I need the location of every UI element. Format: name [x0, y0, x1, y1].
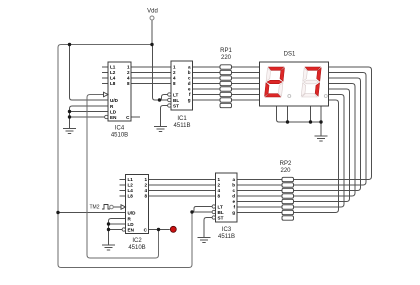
svg-text:4: 4 — [127, 76, 130, 81]
svg-text:BL: BL — [173, 98, 179, 103]
svg-text:2: 2 — [173, 70, 176, 75]
svg-text:a: a — [232, 177, 235, 182]
svg-text:L2: L2 — [128, 183, 134, 188]
svg-text:4511B: 4511B — [218, 234, 235, 240]
svg-text:a: a — [188, 65, 191, 70]
svg-text:RP1: RP1 — [220, 48, 232, 54]
svg-text:8: 8 — [127, 81, 130, 86]
svg-text:4510B: 4510B — [128, 245, 145, 251]
svg-text:L1: L1 — [128, 177, 134, 182]
svg-text:L1: L1 — [110, 65, 116, 70]
svg-text:1: 1 — [127, 65, 130, 70]
svg-text:Vdd: Vdd — [147, 9, 158, 15]
svg-text:TM2: TM2 — [90, 205, 100, 211]
svg-text:1: 1 — [173, 65, 176, 70]
svg-text:EN: EN — [128, 227, 135, 232]
svg-text:LD: LD — [128, 222, 135, 227]
svg-text:L8: L8 — [110, 81, 116, 86]
svg-text:4: 4 — [144, 188, 147, 193]
svg-text:IC3: IC3 — [222, 227, 232, 233]
svg-text:8: 8 — [144, 194, 147, 199]
svg-text:8: 8 — [218, 194, 221, 199]
svg-text:d: d — [188, 81, 191, 86]
svg-text:BL: BL — [218, 210, 224, 215]
svg-text:DS1: DS1 — [284, 52, 296, 58]
svg-text:e: e — [188, 87, 191, 92]
svg-text:1: 1 — [218, 177, 221, 182]
svg-text:LT: LT — [218, 204, 223, 209]
svg-text:4510B: 4510B — [111, 133, 128, 139]
svg-text:e: e — [232, 199, 235, 204]
svg-text:b: b — [232, 183, 235, 188]
svg-text:IC2: IC2 — [132, 238, 142, 244]
svg-text:1: 1 — [144, 177, 147, 182]
svg-text:ST: ST — [173, 103, 179, 108]
svg-text:LT: LT — [173, 92, 178, 97]
svg-text:IC1: IC1 — [177, 116, 187, 122]
svg-text:L2: L2 — [110, 70, 116, 75]
svg-text:4: 4 — [173, 76, 176, 81]
svg-text:2: 2 — [144, 183, 147, 188]
svg-text:L8: L8 — [128, 194, 134, 199]
svg-text:U/D: U/D — [110, 98, 119, 103]
svg-text:4: 4 — [218, 188, 221, 193]
svg-text:220: 220 — [221, 55, 232, 61]
svg-text:EN: EN — [110, 115, 117, 120]
svg-text:L4: L4 — [110, 76, 116, 81]
svg-text:g: g — [188, 98, 191, 103]
svg-text:U/D: U/D — [128, 210, 137, 215]
svg-text:d: d — [232, 194, 235, 199]
svg-text:g: g — [232, 210, 235, 215]
svg-text:L4: L4 — [128, 188, 134, 193]
svg-text:ST: ST — [218, 215, 224, 220]
svg-text:LD: LD — [110, 109, 117, 114]
svg-text:c: c — [188, 76, 191, 81]
svg-text:IC4: IC4 — [115, 126, 125, 132]
svg-text:8: 8 — [173, 81, 176, 86]
svg-text:2: 2 — [127, 70, 130, 75]
svg-text:4511B: 4511B — [174, 123, 191, 129]
svg-text:b: b — [188, 70, 191, 75]
svg-text:220: 220 — [280, 168, 291, 174]
svg-text:c: c — [232, 188, 235, 193]
svg-text:RP2: RP2 — [280, 161, 292, 167]
svg-text:2: 2 — [218, 183, 221, 188]
